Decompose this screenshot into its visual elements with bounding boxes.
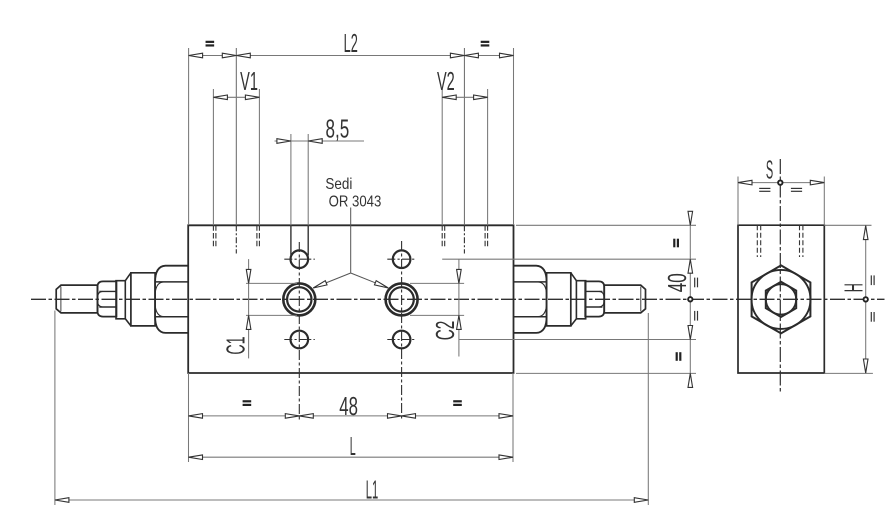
extension line V1 axis up <box>235 48 237 225</box>
cartridge hex nut end view - outer hexagon <box>752 265 811 333</box>
svg-text:Sedi: Sedi <box>325 176 352 193</box>
label = (bottom right) <box>453 400 462 402</box>
side view thread dashes (V port through holes) <box>756 225 758 257</box>
washer (left cartridge) <box>116 281 125 319</box>
valve block body (front view) <box>188 225 513 373</box>
port V2 thread dashes (top face) <box>441 225 443 247</box>
V2 dimension <box>441 89 443 225</box>
port cavity C2 (large circle, right) <box>386 283 418 315</box>
svg-text:H: H <box>841 283 869 292</box>
cartridge large hex nut (left) <box>155 266 188 333</box>
vertical centerline left port column <box>298 242 300 421</box>
C1 seat diameter dimension <box>246 282 297 284</box>
svg-text:OR 3043: OR 3043 <box>329 193 382 210</box>
mounting hole top-left <box>291 250 309 268</box>
label = (right top) <box>481 41 490 43</box>
svg-text:V2: V2 <box>437 68 455 96</box>
svg-text:C1: C1 <box>222 336 250 354</box>
main horizontal centerline (front + side view axis) <box>31 298 885 300</box>
inner hexagon (cartridge hex socket) <box>766 282 796 317</box>
extension hole top row right <box>442 258 696 260</box>
8,5 dimension <box>290 134 292 225</box>
C2 seat diameter dimension <box>410 282 464 284</box>
svg-text:V1: V1 <box>240 68 258 96</box>
side view block outline <box>738 225 824 373</box>
extension line V2 axis up <box>463 48 465 225</box>
vertical centerline right port column <box>401 241 403 421</box>
L1 extension right <box>647 313 649 505</box>
extension hole bottom row right <box>459 339 696 341</box>
svg-text:L1: L1 <box>366 476 378 504</box>
port V2 centerline <box>463 225 465 253</box>
symmetry marks at S dim <box>759 187 770 189</box>
S dimension line <box>738 182 824 184</box>
adjustment stem (left cartridge) <box>56 285 97 313</box>
mounting hole bottom-right <box>393 331 411 349</box>
symmetry marks at 40 dim <box>694 278 696 288</box>
8,5 slot edges in block <box>290 225 292 255</box>
extension line block right edge up <box>513 48 515 225</box>
inner bore circle <box>766 284 796 314</box>
symmetry marks at H dim <box>870 275 872 285</box>
svg-text:L2: L2 <box>344 30 358 58</box>
extension block right edge down <box>512 373 514 462</box>
label = (left top) <box>206 41 215 43</box>
right cartridge valve assembly (mirrored) <box>514 266 646 333</box>
extension block top edge right <box>516 224 696 226</box>
svg-text:L: L <box>350 433 356 462</box>
svg-text:8,5: 8,5 <box>326 114 350 143</box>
node S dim centerline crossing <box>778 180 782 184</box>
L dimension <box>189 456 514 458</box>
left cartridge valve assembly <box>56 266 188 333</box>
label = (bottom left) <box>243 400 252 402</box>
L1 extension left <box>54 311 56 506</box>
leader line Sedi OR 3043 to port seats <box>313 208 388 289</box>
svg-text:C2: C2 <box>432 321 460 341</box>
svg-text:48: 48 <box>339 391 358 421</box>
cartridge body (left) <box>131 273 155 326</box>
40 chain dimension line <box>689 211 691 385</box>
bottom chained dimension = 48 = <box>189 415 514 417</box>
extension block bottom edge right <box>516 372 696 374</box>
svg-text:S: S <box>766 156 773 185</box>
node centerline crossing 40 dim <box>688 297 692 301</box>
top dimension line = / L2 / = <box>189 55 514 57</box>
mounting hole top-right <box>393 250 411 268</box>
side view vertical centerline <box>779 159 781 392</box>
svg-text:40: 40 <box>663 273 692 292</box>
L1 dimension <box>55 499 648 501</box>
label = (lower right chain) <box>676 352 678 361</box>
H dimension line <box>865 226 867 373</box>
taper neck (left cartridge) <box>125 273 131 326</box>
H dimension extensions <box>824 224 871 226</box>
extension line block left edge up <box>188 48 190 225</box>
hex chamfer circle <box>752 270 811 329</box>
horizontal centerline marks of mounting holes <box>284 258 315 260</box>
extension block left edge down <box>188 373 190 462</box>
port cavity C1 (large circle, left) <box>283 283 315 315</box>
node H dim centerline crossing <box>864 297 868 301</box>
port V1 thread dashes (top face) <box>212 225 214 247</box>
S dimension extensions <box>737 177 739 226</box>
port V1 centerline <box>235 225 237 253</box>
V1 dimension <box>212 89 214 225</box>
mounting hole bottom-left <box>291 331 309 349</box>
label = (upper right chain) <box>673 239 675 248</box>
locknut small hex (left cartridge) <box>97 281 116 316</box>
